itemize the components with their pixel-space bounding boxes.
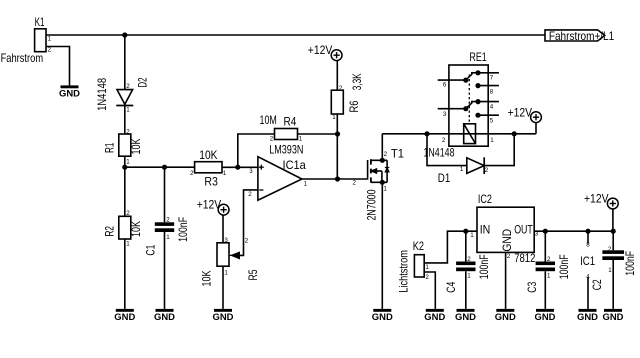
svg-text:2: 2 bbox=[339, 85, 343, 92]
svg-text:GND: GND bbox=[59, 89, 80, 99]
svg-text:IC1: IC1 bbox=[580, 254, 595, 268]
svg-text:2: 2 bbox=[126, 128, 130, 135]
svg-text:GND: GND bbox=[154, 312, 175, 322]
svg-text:GND: GND bbox=[603, 312, 624, 322]
svg-text:2: 2 bbox=[190, 170, 194, 177]
svg-text:2: 2 bbox=[126, 83, 130, 90]
svg-text:K2: K2 bbox=[413, 239, 425, 253]
svg-text:K1: K1 bbox=[35, 15, 45, 29]
svg-text:3: 3 bbox=[443, 111, 447, 118]
svg-text:2: 2 bbox=[467, 256, 471, 263]
svg-text:1: 1 bbox=[383, 186, 387, 193]
svg-text:1: 1 bbox=[223, 170, 227, 177]
svg-text:GND: GND bbox=[455, 312, 476, 322]
svg-text:OUT: OUT bbox=[514, 223, 533, 237]
svg-text:1: 1 bbox=[48, 36, 52, 43]
svg-text:3: 3 bbox=[224, 237, 228, 244]
svg-text:1: 1 bbox=[467, 272, 471, 279]
svg-text:10K: 10K bbox=[129, 139, 143, 155]
svg-text:10K: 10K bbox=[199, 148, 217, 162]
svg-text:1: 1 bbox=[460, 166, 464, 173]
svg-text:C1: C1 bbox=[144, 244, 158, 255]
svg-text:7812: 7812 bbox=[514, 251, 535, 265]
svg-text:GND: GND bbox=[114, 312, 135, 322]
svg-text:R1: R1 bbox=[103, 142, 117, 153]
svg-text:3,3K: 3,3K bbox=[350, 73, 364, 90]
svg-text:RE1: RE1 bbox=[469, 50, 487, 64]
svg-text:D1: D1 bbox=[438, 171, 451, 185]
svg-text:GND: GND bbox=[495, 312, 516, 322]
svg-text:100nF: 100nF bbox=[176, 217, 190, 242]
svg-text:2: 2 bbox=[608, 246, 612, 253]
svg-text:1: 1 bbox=[126, 159, 130, 166]
svg-text:7: 7 bbox=[490, 75, 494, 82]
svg-text:2: 2 bbox=[126, 210, 130, 217]
svg-text:GND: GND bbox=[535, 312, 556, 322]
svg-text:T1: T1 bbox=[391, 146, 404, 160]
svg-text:R3: R3 bbox=[204, 175, 218, 189]
svg-text:+12V: +12V bbox=[508, 106, 532, 120]
svg-text:2: 2 bbox=[245, 237, 249, 244]
svg-text:1: 1 bbox=[547, 272, 551, 279]
svg-text:3: 3 bbox=[249, 168, 253, 175]
svg-text:GND: GND bbox=[577, 312, 598, 322]
svg-text:1: 1 bbox=[166, 234, 170, 241]
svg-text:GND: GND bbox=[424, 312, 445, 322]
svg-text:1N4148: 1N4148 bbox=[95, 78, 109, 111]
svg-text:10K: 10K bbox=[200, 271, 214, 287]
svg-text:C4: C4 bbox=[444, 281, 458, 292]
svg-text:1: 1 bbox=[332, 114, 336, 121]
svg-text:2: 2 bbox=[48, 47, 52, 54]
svg-text:1: 1 bbox=[126, 241, 130, 248]
svg-text:1N4148: 1N4148 bbox=[424, 146, 455, 160]
svg-text:6: 6 bbox=[443, 82, 447, 89]
svg-text:R6: R6 bbox=[347, 100, 361, 112]
svg-text:100nF: 100nF bbox=[557, 254, 571, 279]
svg-text:C3: C3 bbox=[525, 281, 539, 292]
svg-text:GND: GND bbox=[500, 229, 514, 252]
svg-text:+12V: +12V bbox=[584, 192, 609, 206]
svg-text:2: 2 bbox=[547, 256, 551, 263]
svg-text:R2: R2 bbox=[103, 226, 117, 237]
svg-text:R5: R5 bbox=[246, 269, 260, 280]
svg-text:100nF: 100nF bbox=[477, 254, 491, 279]
svg-text:2N7000: 2N7000 bbox=[364, 189, 378, 220]
svg-text:GND: GND bbox=[213, 312, 234, 322]
svg-text:10M: 10M bbox=[260, 113, 277, 127]
svg-text:1: 1 bbox=[224, 270, 228, 277]
svg-text:LM393N: LM393N bbox=[269, 143, 303, 157]
svg-text:1: 1 bbox=[304, 180, 308, 187]
svg-text:1: 1 bbox=[490, 137, 494, 144]
svg-text:2: 2 bbox=[425, 274, 429, 281]
svg-text:+12V: +12V bbox=[197, 197, 222, 211]
svg-text:IN: IN bbox=[480, 223, 491, 237]
svg-text:2: 2 bbox=[507, 253, 511, 260]
svg-text:Fahrstrom+/L1: Fahrstrom+/L1 bbox=[549, 29, 615, 43]
svg-text:GND: GND bbox=[372, 312, 393, 322]
svg-text:1: 1 bbox=[470, 232, 474, 239]
svg-text:Lichtstrom: Lichtstrom bbox=[397, 250, 411, 293]
svg-text:IC2: IC2 bbox=[478, 192, 492, 206]
svg-text:2: 2 bbox=[442, 137, 446, 144]
svg-text:8: 8 bbox=[490, 89, 494, 96]
svg-text:1: 1 bbox=[425, 264, 429, 271]
svg-text:4: 4 bbox=[490, 104, 494, 111]
svg-text:8: 8 bbox=[586, 241, 590, 248]
svg-text:R4: R4 bbox=[284, 115, 297, 129]
svg-text:IC1a: IC1a bbox=[283, 158, 307, 172]
svg-text:4: 4 bbox=[586, 273, 590, 280]
svg-text:2: 2 bbox=[166, 216, 170, 223]
svg-text:2: 2 bbox=[353, 180, 357, 187]
svg-text:2: 2 bbox=[248, 191, 252, 198]
svg-text:+12V: +12V bbox=[308, 43, 333, 57]
svg-text:1: 1 bbox=[126, 107, 130, 114]
svg-text:Fahrstrom: Fahrstrom bbox=[1, 51, 44, 65]
svg-text:D2: D2 bbox=[136, 77, 150, 87]
svg-text:3: 3 bbox=[535, 231, 539, 238]
svg-text:C2: C2 bbox=[590, 279, 604, 290]
svg-text:2: 2 bbox=[384, 151, 388, 158]
svg-text:100nF: 100nF bbox=[623, 251, 637, 276]
svg-text:1: 1 bbox=[608, 267, 612, 274]
svg-text:2: 2 bbox=[485, 167, 489, 174]
svg-text:5: 5 bbox=[490, 118, 494, 125]
svg-text:10K: 10K bbox=[129, 221, 143, 237]
